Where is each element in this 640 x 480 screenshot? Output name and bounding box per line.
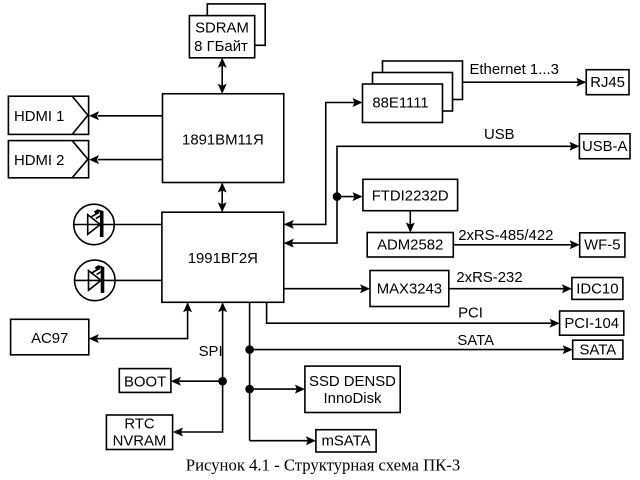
connector WF-5 [580, 233, 625, 257]
connector RJ45 [586, 70, 629, 95]
junction dot SPI [218, 377, 227, 386]
connector USB-A [579, 134, 630, 159]
svg-text:NVRAM: NVRAM [113, 433, 167, 449]
wire SDRAM to 1891ВМ11Я (bidirectional) [218, 58, 227, 94]
svg-text:SSD DENSD: SSD DENSD [309, 374, 396, 390]
svg-text:RTC: RTC [124, 416, 155, 432]
svg-text:8 ГБайт: 8 ГБайт [194, 39, 248, 55]
wire 1991ВГ2Я to MAX3243 [284, 284, 370, 293]
wire LED D2 to 1991ВГ2Я [75, 279, 162, 281]
connector IDC10 [572, 278, 623, 300]
wire ADM2582 to WF-5 [453, 240, 579, 249]
processor 1991ВГ2Я [162, 212, 284, 302]
LED indicator D2 [75, 260, 116, 301]
wire junction to SSD [250, 385, 305, 394]
wire 1891ВМ11Я to HDMI 1 [89, 111, 163, 120]
audio codec AC97 [11, 319, 89, 355]
svg-text:mSATA: mSATA [321, 434, 370, 450]
svg-text:USB: USB [484, 127, 515, 143]
PHY 88E1111 back box [383, 61, 463, 100]
wire SPI 1991ВГ2Я to RTC NVRAM [173, 302, 227, 436]
svg-text:AC97: AC97 [31, 331, 68, 347]
svg-text:PCI-104: PCI-104 [564, 316, 619, 332]
connector PCI-104 [560, 311, 624, 335]
PHY 88E1111 front box [363, 84, 443, 123]
PHY 88E1111 middle box [373, 73, 453, 112]
junction dot SATA [245, 345, 254, 354]
svg-text:1891ВМ11Я: 1891ВМ11Я [182, 132, 264, 148]
svg-text:2xRS-232: 2xRS-232 [456, 270, 522, 286]
svg-text:1991ВГ2Я: 1991ВГ2Я [188, 251, 258, 267]
memory SDRAM front box [189, 16, 254, 58]
connector SATA [573, 340, 623, 359]
wire junction to SATA connector [250, 345, 573, 354]
memory SDRAM back box [207, 4, 265, 45]
drive mSATA [316, 430, 376, 452]
svg-text:PCI: PCI [458, 306, 483, 322]
flash BOOT [119, 369, 171, 393]
Ethernet wire 88E1111 to RJ45 [463, 78, 587, 87]
wire 1891ВМ11Я to HDMI 2 [89, 155, 163, 164]
wire 1891ВМ11Я to 1991ВГ2Я (bidirectional) [218, 183, 227, 213]
transceiver MAX3243 [370, 271, 449, 307]
USB controller FTDI2232D [363, 179, 458, 210]
svg-text:BOOT: BOOT [124, 374, 166, 390]
svg-text:ADM2582: ADM2582 [377, 238, 443, 254]
svg-text:MAX3243: MAX3243 [377, 281, 442, 297]
LED indicator D1 [74, 204, 115, 245]
svg-text:SPI: SPI [199, 344, 223, 360]
wire 1991ВГ2Я to USB-A (bidirectional) [284, 142, 580, 248]
svg-text:Ethernet 1...3: Ethernet 1...3 [469, 62, 558, 78]
svg-text:HDMI 1: HDMI 1 [14, 109, 64, 125]
transceiver ADM2582 [367, 233, 453, 258]
svg-text:SATA: SATA [457, 333, 494, 349]
svg-text:SDRAM: SDRAM [195, 21, 249, 37]
svg-text:WF-5: WF-5 [584, 238, 620, 254]
svg-text:RJ45: RJ45 [590, 75, 625, 91]
wire 1991ВГ2Я to AC97 (bidirectional) [89, 302, 192, 343]
drive SSD DENSD InnoDisk [305, 366, 400, 412]
wire LED D1 to 1991ВГ2Я [74, 224, 162, 226]
svg-text:SATA: SATA [579, 342, 616, 358]
wire FTDI2232D to ADM2582 [406, 211, 415, 233]
clock RTC NVRAM [106, 415, 172, 450]
wire MAX3243 to IDC10 [449, 284, 572, 293]
processor 1891ВМ11Я [163, 94, 284, 183]
svg-text:IDC10: IDC10 [576, 281, 618, 297]
svg-text:Рисунок 4.1 - Структурная схем: Рисунок 4.1 - Структурная схема ПК-3 [186, 455, 460, 474]
HDMI 2 connector [8, 141, 88, 178]
wire 1991ВГ2Я to PCI-104 [267, 302, 560, 327]
wire 1991ВГ2Я SATA/SSD bus vertical [249, 302, 251, 440]
wire junction to FTDI2232D [337, 192, 363, 201]
HDMI 1 connector [8, 96, 88, 134]
svg-text:FTDI2232D: FTDI2232D [372, 189, 449, 205]
svg-text:InnoDisk: InnoDisk [324, 391, 382, 407]
junction dot SSD [245, 385, 254, 394]
wire SPI junction to BOOT [171, 377, 223, 386]
svg-text:USB-A: USB-A [582, 139, 628, 155]
wire 1991ВГ2Я to 88E1111 (bidirectional) [284, 98, 363, 229]
junction dot USB/FTDI [333, 192, 342, 201]
svg-text:HDMI 2: HDMI 2 [14, 153, 64, 169]
svg-text:88E1111: 88E1111 [372, 96, 428, 112]
wire bus to mSATA [250, 436, 316, 445]
svg-text:2xRS-485/422: 2xRS-485/422 [458, 228, 553, 244]
